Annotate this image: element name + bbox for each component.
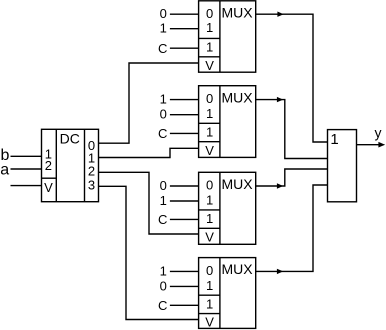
svg-text:V: V: [205, 143, 214, 158]
wire DC output 1 to U2 pin V: [99, 148, 199, 157]
svg-text:0: 0: [160, 278, 167, 293]
svg-text:C: C: [158, 212, 167, 227]
wire U3 output to U5: [256, 169, 328, 186]
svg-text:1: 1: [206, 40, 213, 55]
wire C to U2: [170, 132, 199, 134]
wire to U4 data input 1: [170, 285, 199, 287]
svg-text:1: 1: [206, 125, 213, 140]
svg-text:MUX: MUX: [221, 4, 253, 20]
svg-text:MUX: MUX: [221, 89, 253, 105]
wire y output: [357, 144, 380, 146]
wire b input: [11, 155, 42, 157]
svg-text:V: V: [205, 315, 214, 330]
wire to U4 data input 0: [170, 270, 199, 272]
svg-text:1: 1: [206, 297, 213, 312]
wire to U2 data input 0: [170, 99, 199, 101]
svg-text:a: a: [0, 162, 9, 179]
svg-text:1: 1: [206, 20, 213, 35]
svg-text:0: 0: [160, 107, 167, 122]
mux U3: [199, 172, 256, 244]
wire U1 output to U5: [256, 14, 328, 142]
svg-text:2: 2: [45, 158, 52, 173]
wire DC output 3 to U4 pin V: [99, 186, 199, 319]
wire DC output 2 to U3 pin V: [99, 172, 199, 234]
svg-text:1: 1: [160, 193, 167, 208]
or-gate U5: [328, 130, 357, 202]
svg-text:1: 1: [206, 278, 213, 293]
wire to U3 data input 0: [170, 185, 199, 187]
svg-text:0: 0: [160, 178, 167, 193]
mux U4: [199, 258, 256, 329]
wire DC V input: [11, 185, 42, 187]
svg-text:0: 0: [206, 91, 213, 106]
arrowhead on y output: [378, 142, 385, 148]
mux U1: [199, 1, 256, 72]
wire U2 output to U5: [256, 100, 328, 159]
svg-text:0: 0: [160, 6, 167, 21]
svg-text:1: 1: [330, 131, 338, 148]
arrowhead on U4 output: [277, 269, 283, 274]
svg-text:C: C: [158, 126, 167, 141]
svg-text:C: C: [158, 41, 167, 56]
wire DC output 0 to U1 pin V: [99, 63, 199, 143]
arrowhead on U3 output: [277, 183, 283, 188]
wire C to U4: [170, 304, 199, 306]
wire to U1 data input 0: [170, 13, 199, 15]
svg-text:0: 0: [206, 178, 213, 193]
wire to U2 data input 1: [170, 114, 199, 116]
mux U2: [199, 86, 256, 158]
wire a input: [11, 168, 42, 170]
wire U4 output to U5: [256, 185, 328, 271]
svg-text:2: 2: [88, 164, 95, 179]
svg-text:V: V: [205, 229, 214, 244]
svg-text:1: 1: [206, 106, 213, 121]
svg-text:V: V: [205, 58, 214, 73]
svg-text:V: V: [44, 180, 53, 195]
svg-text:y: y: [375, 125, 382, 141]
svg-text:0: 0: [206, 263, 213, 278]
svg-text:1: 1: [206, 192, 213, 207]
svg-text:1: 1: [160, 263, 167, 278]
svg-text:3: 3: [88, 178, 95, 193]
arrowhead on U2 output: [277, 97, 283, 102]
svg-text:MUX: MUX: [221, 176, 253, 192]
svg-text:1: 1: [160, 92, 167, 107]
wire C to U3: [170, 218, 199, 220]
wire to U3 data input 1: [170, 200, 199, 202]
svg-text:1: 1: [206, 211, 213, 226]
svg-text:0: 0: [206, 6, 213, 21]
decoder DC: [42, 129, 99, 201]
svg-text:DC: DC: [60, 131, 80, 147]
svg-text:C: C: [158, 298, 167, 313]
wire to U1 data input 1: [170, 28, 199, 30]
svg-text:1: 1: [160, 21, 167, 36]
wire C to U1: [170, 47, 199, 49]
svg-text:MUX: MUX: [221, 261, 253, 277]
arrowhead on U1 output: [277, 12, 283, 17]
